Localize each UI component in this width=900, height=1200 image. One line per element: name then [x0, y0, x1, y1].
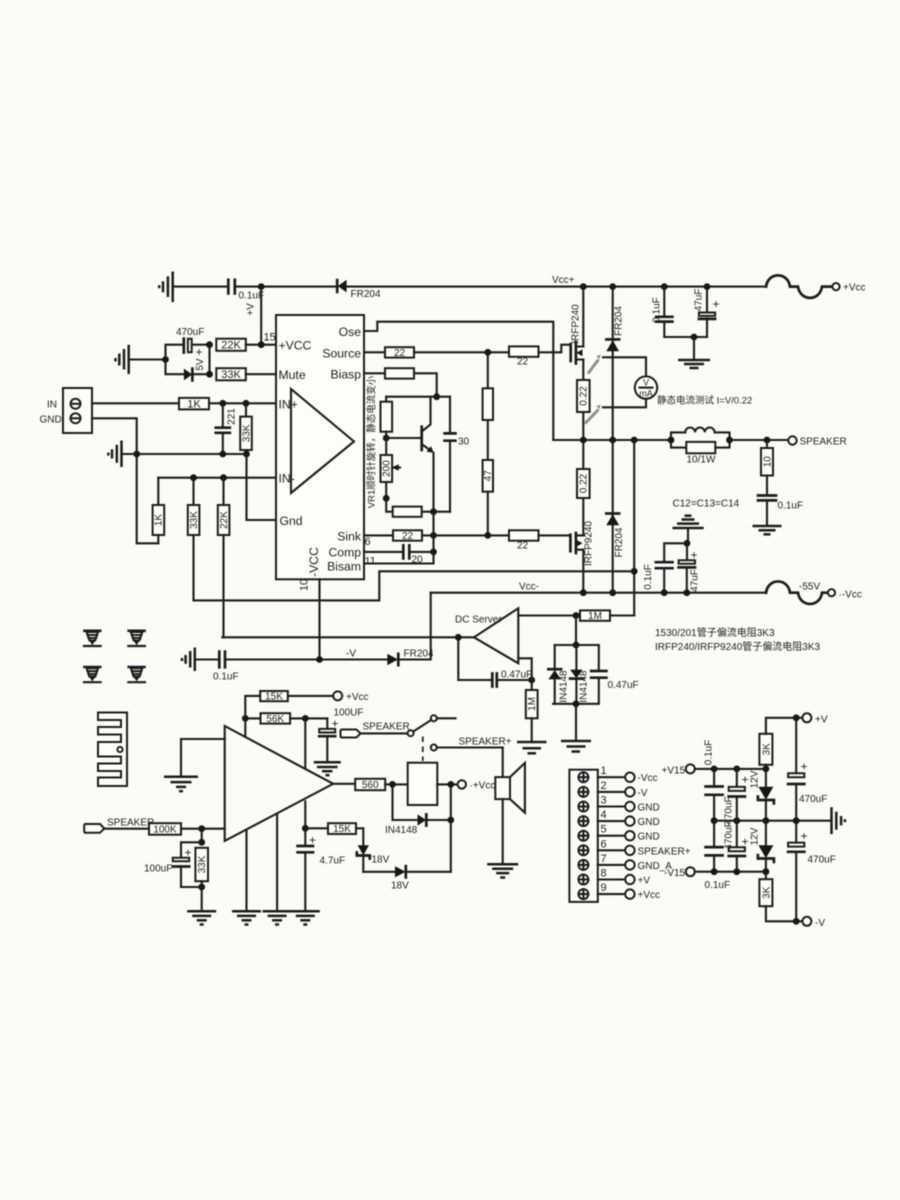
capacitor C20 470uF right upper — [788, 718, 804, 821]
svg-text:FR204: FR204 — [614, 306, 625, 336]
node 15K-4.7uF — [302, 825, 309, 832]
wire tag to switch — [361, 732, 408, 734]
capacitor C13 0.47uF servo — [492, 674, 531, 687]
wire break symbol bottom — [766, 581, 828, 604]
resistor R19 10 — [761, 440, 773, 476]
svg-text:33K: 33K — [197, 855, 208, 873]
svg-text:15K: 15K — [333, 824, 351, 835]
svg-text:560: 560 — [362, 780, 379, 791]
wire fb horizontal — [194, 571, 635, 600]
wire R11 corner — [414, 373, 437, 396]
node cap-res bottom — [198, 884, 205, 891]
svg-text:FR204: FR204 — [404, 649, 434, 660]
ground rail decouple — [678, 360, 710, 368]
ground diode net — [561, 741, 591, 752]
svg-text:100K: 100K — [153, 825, 177, 836]
wire servo out line — [222, 636, 474, 638]
svg-text:FR204: FR204 — [614, 527, 625, 557]
resistor R1 22K — [216, 339, 246, 352]
svg-text:22K: 22K — [221, 340, 241, 352]
node +V cap — [793, 714, 800, 721]
resistor R28 3K upper — [759, 734, 772, 769]
wire node down — [201, 829, 203, 843]
wire +V15 line — [695, 768, 766, 770]
node fb B — [302, 715, 309, 722]
wire to ground — [693, 337, 695, 360]
svg-text:7: 7 — [601, 853, 607, 865]
svg-text:GND: GND — [638, 817, 660, 828]
node v15n-3K — [763, 868, 770, 875]
resistor R18 0.22 lower — [577, 469, 590, 498]
capacitor C18 0.1uF psu upper — [706, 769, 723, 821]
ground symbol inverted neg-rail — [673, 516, 704, 528]
relay K1 — [408, 763, 438, 805]
capacitor C8 0.1uF zobel — [758, 476, 776, 527]
wire protection riser — [450, 784, 452, 871]
switch SW1 contact B — [431, 745, 503, 751]
wire break symbol top — [766, 275, 832, 298]
node rail-C3 — [704, 283, 711, 290]
svg-text:+: + — [801, 760, 808, 774]
svg-text:SPEAKER: SPEAKER — [107, 818, 154, 829]
node gnd-3 — [243, 451, 250, 458]
ground -V line (rotated) — [182, 648, 195, 672]
wire Q3 source to rail — [582, 550, 584, 593]
resistor R13 bias lower — [393, 507, 422, 517]
terminal SPEAKER — [788, 436, 796, 444]
node servo out — [455, 634, 462, 641]
svg-text:1530/201管子偏流电阻3K3: 1530/201管子偏流电阻3K3 — [655, 626, 775, 639]
svg-text:SPEAKER+: SPEAKER+ — [638, 846, 691, 857]
capacitor C21 0.1uF psu lower — [706, 821, 723, 872]
node rail-C9 — [661, 589, 668, 596]
wire Biasp pin — [364, 372, 385, 374]
svg-text:VR1顺时针旋转，静态电流变小: VR1顺时针旋转，静态电流变小 — [366, 375, 378, 508]
capacitor C5 221 — [216, 403, 230, 454]
wire gnd to node — [129, 358, 166, 360]
node rail-D4 — [609, 589, 616, 596]
wire +V vertical to pin15 — [260, 287, 262, 345]
wire GND drop — [92, 418, 158, 543]
svg-text:6: 6 — [601, 838, 607, 850]
wire Q1 drain — [582, 287, 584, 347]
svg-text:5V: 5V — [195, 358, 206, 371]
resistor R17 22 lower gate — [509, 530, 539, 551]
wire R2 to Mute pin — [246, 373, 276, 375]
svg-text:+Vcc: +Vcc — [638, 890, 661, 901]
svg-text:4: 4 — [601, 809, 607, 821]
svg-text:3K: 3K — [761, 886, 772, 899]
svg-text:Bisam: Bisam — [327, 560, 361, 574]
resistor R29 3K lower — [759, 872, 772, 907]
svg-text:22: 22 — [517, 541, 529, 552]
probe upper (gray) — [588, 354, 601, 373]
svg-text:22K: 22K — [219, 511, 230, 529]
heatsink icon — [98, 713, 127, 787]
node diode net bottom — [573, 700, 580, 707]
node decouple gnd — [691, 334, 698, 341]
wire node vertical — [208, 345, 210, 375]
terminal -V15 — [686, 867, 695, 876]
wire C16 bottom join — [181, 887, 202, 911]
svg-text:10/1W: 10/1W — [687, 455, 716, 466]
node servo 1M-diode — [573, 612, 580, 619]
wire rail to +Vcc terminal — [347, 286, 766, 288]
pin 1 stub — [598, 765, 658, 784]
node C4-R1 — [206, 341, 213, 348]
wire C2-C3 bottom — [664, 336, 707, 338]
svg-text:10: 10 — [762, 456, 773, 468]
wire mid chain — [487, 420, 489, 460]
wire inv-gnd stem — [687, 528, 689, 543]
terminal +Vcc amp2 — [333, 691, 342, 700]
svg-text:15: 15 — [264, 332, 276, 344]
ground speaker — [487, 864, 518, 877]
resistor R14 mid upper — [483, 388, 493, 420]
svg-text:0.47uF: 0.47uF — [501, 670, 532, 681]
svg-text:0.1uF: 0.1uF — [778, 501, 804, 512]
svg-text:SPEAKER: SPEAKER — [800, 437, 847, 448]
svg-text:+V15: +V15 — [662, 765, 686, 776]
svg-text:Biasp: Biasp — [331, 367, 362, 381]
svg-text:GND: GND — [40, 415, 62, 426]
capacitor C1 0.1uF top — [228, 280, 235, 294]
dashed actuator link — [422, 737, 424, 762]
svg-text:0.22: 0.22 — [579, 386, 590, 406]
capacitor C7 20 — [403, 545, 433, 558]
wire 560 to relay — [385, 783, 408, 785]
terminal +V — [802, 713, 811, 722]
diode D3 5V zener — [184, 369, 193, 381]
svg-text:56K: 56K — [266, 714, 284, 725]
node rail c18 — [711, 817, 718, 824]
svg-text:470uF: 470uF — [176, 327, 204, 338]
wire R9 to Q1 gate — [539, 345, 571, 353]
capacitor C10 47uF neg — [679, 543, 695, 592]
meter M1 wires — [603, 357, 646, 407]
svg-text:+: + — [309, 833, 316, 847]
svg-text:1K: 1K — [154, 514, 165, 527]
svg-text:22: 22 — [394, 348, 406, 359]
svg-text:30: 30 — [458, 437, 470, 448]
node VR1 top — [383, 435, 390, 442]
node sink-47 — [484, 532, 491, 539]
svg-text:0.1uF: 0.1uF — [652, 297, 663, 323]
wire U3 gnd input — [181, 739, 225, 777]
node v15n-c21 — [711, 868, 718, 875]
node v15n-c22 — [733, 868, 740, 875]
ground amp2 d — [291, 911, 320, 924]
diode D2 FR204 upper — [606, 287, 619, 440]
op-amp U1 main IC box — [276, 315, 364, 579]
wire output node line — [553, 439, 671, 441]
node 33K in — [243, 400, 250, 407]
pin 3 stub — [598, 795, 660, 814]
node -V cap — [793, 918, 800, 925]
ground amp2 a — [187, 911, 216, 924]
wire zener to node — [192, 373, 209, 375]
screw icon 4 — [128, 667, 145, 682]
switch SW1 — [408, 715, 456, 736]
pin 5 stub — [598, 824, 660, 843]
node fb tap — [631, 568, 638, 575]
svg-text:·-Vcc: ·-Vcc — [839, 590, 862, 601]
svg-text:-V: -V — [638, 788, 648, 799]
node servo fb-out — [528, 677, 535, 684]
wire servo in top — [518, 614, 634, 616]
resistor R6 33K vertical — [188, 478, 200, 601]
ground psu chassis — [832, 807, 845, 834]
ground amp2 b — [232, 911, 261, 924]
svg-text:47: 47 — [483, 470, 494, 482]
wire feedback path — [633, 440, 635, 616]
wire IN- line — [158, 477, 276, 479]
node sink-emitter — [430, 532, 437, 539]
wire relay out — [437, 783, 457, 785]
svg-text:+: + — [185, 846, 192, 860]
wire IN to R3 — [92, 402, 179, 404]
svg-text:47uF: 47uF — [690, 569, 701, 592]
svg-text:5: 5 — [601, 824, 607, 836]
wire zener to D9 — [363, 871, 395, 873]
ground C15 — [314, 762, 341, 775]
node input bias — [198, 825, 205, 832]
resistor R11 biasp — [385, 368, 414, 378]
pin 8 stub — [598, 868, 651, 887]
svg-text:-Vcc: -Vcc — [638, 773, 658, 784]
svg-text:V: V — [643, 378, 649, 388]
svg-text:-V: -V — [346, 649, 356, 660]
screw icon 1 — [84, 631, 101, 646]
svg-text:470uF: 470uF — [808, 855, 836, 866]
pin 2 stub — [598, 780, 648, 799]
wire gnd line — [122, 453, 247, 455]
wire psu mid rail — [714, 820, 831, 822]
op-amp U3 power amp — [225, 726, 334, 841]
svg-text:mA: mA — [639, 389, 653, 399]
svg-text:0.1uF: 0.1uF — [213, 672, 239, 683]
svg-text:18V: 18V — [391, 881, 409, 892]
diode D4 FR204 lower — [606, 440, 619, 593]
resistor R24 100K — [149, 823, 181, 836]
speaker LS1 — [495, 763, 525, 813]
svg-text:Comp: Comp — [328, 546, 361, 560]
pin 7 stub — [598, 853, 672, 872]
pin 6 stub — [598, 838, 691, 857]
svg-text:+: + — [713, 297, 720, 311]
capacitor C16 100uF — [173, 842, 202, 887]
svg-text:静态电流测试 I=V/0.22: 静态电流测试 I=V/0.22 — [657, 395, 752, 407]
node neg decouple — [684, 540, 691, 547]
wire U3 output — [333, 783, 355, 785]
connector J1 input — [63, 388, 92, 433]
wire R3 to IN+ pin — [209, 402, 276, 404]
node bias bottom — [430, 508, 437, 515]
node gnd-1 — [133, 451, 140, 458]
svg-text:GND: GND — [638, 832, 660, 843]
terminal +Vcc relay — [458, 780, 466, 788]
wire Q1 source — [582, 360, 584, 381]
diode D1 FR204 top rail — [337, 280, 346, 293]
node zener-R2 — [206, 371, 213, 378]
wire -V line — [225, 658, 387, 660]
node v15-c19 — [733, 766, 740, 773]
svg-text:·+Vcc: ·+Vcc — [470, 780, 496, 791]
svg-text:C12=C13=C14: C12=C13=C14 — [673, 499, 740, 510]
wire Gnd pin path — [247, 454, 277, 520]
svg-text:-55V: -55V — [799, 582, 820, 593]
wire 15K to zener — [356, 828, 363, 845]
capacitor C17 4.7uF — [298, 828, 313, 911]
wire 3K to +V — [766, 718, 802, 734]
wire R18 to output — [582, 440, 584, 469]
svg-text:+: + — [742, 835, 749, 849]
svg-text:DC Server: DC Server — [455, 615, 502, 626]
svg-text:+: + — [742, 773, 749, 787]
svg-text:+Vcc: +Vcc — [843, 283, 866, 294]
svg-text:1M: 1M — [588, 611, 602, 622]
wire Source pin — [364, 351, 385, 353]
wire net gnd stem — [575, 704, 577, 741]
ground servo 1M — [517, 742, 547, 753]
node 221 cap — [219, 400, 226, 407]
ground top-left — [159, 272, 173, 303]
inductor L1 with R parallel — [668, 428, 733, 454]
resistor R22 15K — [245, 691, 333, 718]
svg-text:9: 9 — [601, 882, 607, 894]
node 470uF net — [162, 356, 169, 363]
svg-text:33K: 33K — [189, 511, 200, 529]
wire Vcc- rail — [431, 592, 766, 594]
tag SPEAKER input — [84, 824, 104, 833]
tag SPEAKER switch — [341, 730, 361, 738]
svg-text:IN+: IN+ — [279, 397, 298, 411]
wire node up to C4 — [166, 345, 184, 360]
diode D5 FR204 -V — [387, 654, 398, 665]
diode D7 IN4148 — [570, 645, 583, 704]
wire to 0.1uF neg — [664, 543, 687, 562]
resistor R15 47 — [483, 460, 495, 492]
resistor R3 1K — [179, 398, 209, 410]
wire Q3 top to R18 — [582, 498, 584, 535]
op-amp U2 DC Server — [474, 608, 518, 663]
resistor R20 1M horizontal — [580, 610, 610, 622]
wire fb A to triangle — [244, 718, 246, 736]
svg-text:Vcc-: Vcc- — [519, 582, 539, 593]
wire mid chain top — [487, 352, 489, 388]
screw icon 2 — [128, 631, 145, 646]
node rail-D2 — [609, 283, 616, 290]
svg-text:Vcc+: Vcc+ — [552, 275, 575, 286]
resistor R25 33K — [195, 848, 208, 887]
node source chain — [484, 349, 491, 356]
wire fb to opamp out — [518, 658, 531, 680]
node v15-3K — [763, 766, 770, 773]
svg-text:Sink: Sink — [337, 529, 362, 543]
svg-text:-V: -V — [815, 918, 825, 929]
svg-text:33K: 33K — [221, 369, 241, 381]
node R1-pin15 — [258, 341, 265, 348]
svg-text:22: 22 — [517, 357, 529, 368]
wire diode net vertical — [575, 616, 577, 646]
node v15-c18 — [711, 766, 718, 773]
wire bias top line — [386, 396, 450, 398]
svg-text:-VCC: -VCC — [307, 547, 321, 577]
svg-text:12V: 12V — [749, 827, 760, 845]
svg-text:6: 6 — [365, 536, 371, 548]
wire -VCC pin down — [318, 579, 320, 659]
wire R10 to output — [582, 412, 584, 440]
terminal -V — [802, 917, 811, 926]
svg-text:FR204: FR204 — [351, 289, 381, 300]
potentiometer VR1 200 — [381, 438, 401, 498]
capacitor C2 0.1uF rail decouple — [656, 287, 672, 337]
svg-text:+Vcc: +Vcc — [346, 692, 369, 703]
resistor R5 1K vertical — [153, 478, 165, 544]
svg-text:3: 3 — [601, 795, 607, 807]
svg-text:0.1uF: 0.1uF — [705, 880, 731, 891]
capacitor C6 30 — [445, 397, 456, 512]
diode D12 12V zener lower — [758, 821, 774, 872]
resistor R16 22 sink — [393, 530, 422, 542]
probe lower (gray) — [585, 404, 601, 423]
svg-text:SPEAKER: SPEAKER — [363, 722, 410, 733]
resistor R27 560 — [355, 779, 385, 791]
svg-text:33K: 33K — [241, 424, 252, 442]
resistor R7 22K vertical — [218, 478, 230, 638]
svg-text:IN-: IN- — [279, 472, 295, 486]
screw icon 3 — [84, 667, 101, 682]
svg-text:470uF: 470uF — [724, 821, 735, 849]
wire fb B to triangle — [304, 718, 306, 767]
svg-text:+: + — [801, 829, 808, 843]
svg-text:-V15: -V15 — [664, 868, 686, 879]
wire U3 bottom edge drop 2 — [276, 814, 278, 912]
node out-R10 — [580, 437, 587, 444]
transistor Q1 IRFP240 — [571, 342, 584, 364]
svg-text:IN4148: IN4148 — [579, 670, 590, 703]
diode D6 IN4148 — [548, 645, 561, 704]
svg-text:IRFP9240: IRFP9240 — [584, 521, 595, 566]
svg-text:Ose: Ose — [339, 325, 362, 339]
capacitor C9 0.1uF neg — [656, 562, 673, 593]
ground input — [108, 441, 121, 468]
svg-text:IN4148: IN4148 — [385, 825, 418, 836]
node rail-Q3 — [580, 589, 587, 596]
wire 3K to -V — [766, 906, 802, 921]
wire R1 to pin15 — [246, 344, 276, 346]
wire 100K to U3 — [181, 828, 225, 830]
transistor Q3 IRFP9240 — [570, 533, 583, 553]
svg-text:GND: GND — [638, 803, 660, 814]
resistor R26 15K — [305, 823, 356, 835]
svg-text:IRFP240/IRFP9240管子偏流电阻3K3: IRFP240/IRFP9240管子偏流电阻3K3 — [655, 640, 820, 653]
svg-text:SPEAKER+: SPEAKER+ — [459, 737, 512, 748]
svg-text:2: 2 — [601, 780, 607, 792]
node gnd-2 — [219, 451, 226, 458]
ground amp2 c — [263, 911, 292, 924]
svg-text:8: 8 — [601, 868, 607, 880]
wire U3 hyp drop 3 — [304, 801, 306, 828]
node out-servo — [631, 437, 638, 444]
node relay out — [447, 781, 454, 788]
svg-text:1M: 1M — [527, 697, 538, 711]
wire servo fb — [458, 637, 490, 680]
node fb 33K — [190, 474, 197, 481]
svg-text:221: 221 — [227, 408, 238, 425]
svg-text:470uF: 470uF — [799, 794, 827, 805]
wire Sink pin — [364, 534, 393, 536]
